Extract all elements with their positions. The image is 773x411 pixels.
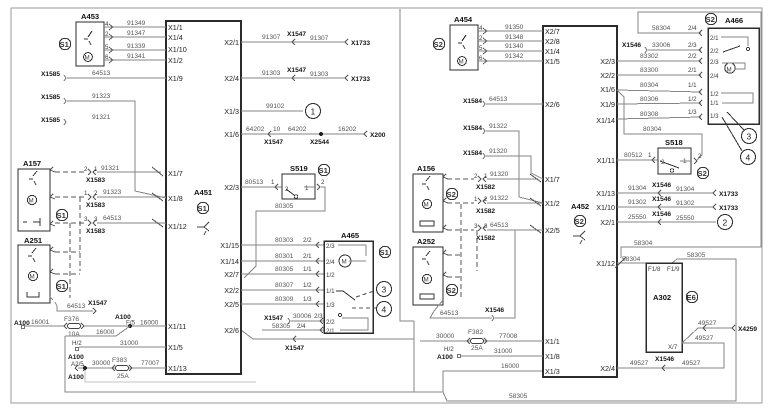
svg-text:58304: 58304 [652, 25, 671, 32]
svg-text:31000: 31000 [120, 340, 139, 347]
svg-text:S1: S1 [60, 40, 70, 49]
svg-text:2: 2 [479, 35, 483, 42]
svg-text:X2/5: X2/5 [224, 300, 239, 309]
svg-text:2/1: 2/1 [303, 253, 312, 260]
svg-text:X2/1: X2/1 [600, 218, 615, 227]
svg-text:A453: A453 [81, 12, 99, 21]
control unit A451 [166, 21, 241, 374]
svg-text:A452: A452 [571, 202, 589, 211]
dashed wire A156 to X1/7 (91320) [443, 171, 541, 191]
S1 symbol in A451 [197, 202, 208, 213]
wire 58304 labels [634, 25, 702, 247]
svg-text:91321: 91321 [92, 114, 111, 121]
svg-text:1: 1 [271, 179, 275, 186]
svg-text:X1547: X1547 [287, 67, 306, 74]
motor unit A454 [450, 15, 478, 70]
svg-text:X2/8: X2/8 [545, 37, 560, 46]
dashed bus verticals right [460, 204, 462, 298]
svg-text:X1/1: X1/1 [168, 23, 183, 32]
dashed wire A157 to X1/8 (91323) [50, 189, 166, 209]
svg-text:X1733: X1733 [719, 205, 738, 212]
wire 80307 X2/2 to A465 1/1 [241, 282, 324, 293]
wire 91303 X2/4 to X1733 [241, 67, 370, 83]
wire 30006 X1547 to A465 2/2 [264, 313, 324, 324]
wire 80305 S519 to X2/7 junction [244, 179, 325, 278]
svg-text:S1: S1 [57, 282, 67, 291]
svg-text:X1/15: X1/15 [220, 241, 239, 250]
svg-text:X1585: X1585 [41, 71, 60, 78]
wire 49527 X/7 to X4259 [682, 320, 757, 343]
svg-text:6: 6 [479, 55, 483, 62]
svg-text:91323: 91323 [92, 93, 111, 100]
svg-text:58304: 58304 [622, 256, 641, 263]
svg-text:91349: 91349 [127, 20, 146, 27]
svg-text:M: M [727, 67, 732, 74]
S1 symbol in A157 group [56, 209, 67, 220]
wire 80304 X1/6 to A466 1/2 [617, 82, 702, 95]
svg-text:S2: S2 [575, 217, 584, 226]
svg-text:S1: S1 [319, 166, 329, 175]
svg-text:2/2: 2/2 [710, 48, 719, 55]
svg-text:H/2: H/2 [72, 340, 82, 347]
svg-text:1: 1 [474, 196, 478, 203]
wire 33006 X1546 to A466 2/1 [622, 42, 702, 53]
svg-text:25A: 25A [117, 373, 129, 380]
svg-text:1/1: 1/1 [326, 288, 335, 295]
switch unit A157 [18, 159, 50, 231]
wire 80301 X1/14 to A465 2/4 [241, 253, 324, 264]
svg-text:16001: 16001 [31, 319, 50, 326]
svg-text:10A: 10A [68, 331, 80, 338]
svg-text:2/4: 2/4 [297, 323, 306, 330]
wire X2/6 58305 run [241, 330, 414, 339]
wire 64513 A251 bottom to X1547 [50, 297, 107, 314]
svg-text:F/5: F/5 [126, 320, 135, 327]
svg-text:X1547: X1547 [88, 300, 107, 307]
wire 58305 to A465 2/1 [262, 323, 324, 333]
svg-text:X2/5: X2/5 [545, 226, 560, 235]
svg-text:80309: 80309 [275, 296, 294, 303]
svg-text:58305: 58305 [687, 252, 706, 259]
svg-text:1/3: 1/3 [688, 109, 697, 116]
svg-text:X1584: X1584 [463, 125, 482, 132]
A451 right pin labels [220, 38, 239, 335]
wire 30000 fuse F382 77008 to X1/1 [420, 333, 543, 341]
svg-text:80513: 80513 [245, 179, 264, 186]
wire 91304 X1/13 to X1733 [617, 182, 738, 198]
svg-text:91341: 91341 [127, 53, 146, 60]
svg-text:91322: 91322 [490, 195, 509, 202]
svg-text:64513: 64513 [490, 222, 509, 229]
svg-text:F1/9: F1/9 [667, 266, 680, 273]
switch unit A251 [18, 236, 50, 303]
svg-text:64513: 64513 [489, 96, 508, 103]
connector X1585 wire 64513 to X1/9 [41, 70, 166, 81]
svg-text:2: 2 [321, 179, 325, 186]
svg-text:2: 2 [723, 218, 728, 228]
svg-text:91307: 91307 [310, 35, 329, 42]
svg-text:91320: 91320 [489, 148, 508, 155]
svg-text:1: 1 [305, 185, 309, 192]
svg-text:X1582: X1582 [476, 235, 495, 242]
svg-text:X1/13: X1/13 [596, 189, 615, 198]
svg-text:1/2: 1/2 [303, 282, 312, 289]
svg-text:2/3: 2/3 [710, 59, 719, 66]
svg-text:4: 4 [479, 25, 483, 32]
svg-text:X/7: X/7 [668, 344, 678, 351]
svg-text:X1/7: X1/7 [168, 169, 183, 178]
svg-text:49527: 49527 [630, 360, 649, 367]
wire 80304 X1/6 branch to S518 [617, 90, 702, 160]
svg-text:1/3: 1/3 [710, 113, 719, 120]
wire 58305 right riser [443, 259, 736, 401]
connector X1584 wire 91320 [463, 148, 543, 179]
svg-text:64513: 64513 [67, 303, 86, 310]
fuse F382 25A [467, 329, 518, 352]
svg-text:1/3: 1/3 [326, 302, 335, 309]
svg-text:2/4: 2/4 [688, 25, 697, 32]
wire 58304 route X1/12 to A466 2/4 [621, 12, 761, 258]
svg-text:2/2: 2/2 [326, 319, 335, 326]
svg-text:91350: 91350 [505, 24, 524, 31]
svg-text:X2/3: X2/3 [600, 57, 615, 66]
svg-text:X2544: X2544 [310, 139, 329, 146]
wire 91340 A454:5 to X1/4 [478, 43, 543, 54]
svg-text:M: M [85, 55, 90, 62]
svg-text:83300: 83300 [640, 67, 659, 74]
connector X1585 wire 91321 [41, 114, 111, 125]
svg-text:X1/13: X1/13 [168, 364, 187, 373]
svg-text:1/2: 1/2 [688, 96, 697, 103]
svg-text:X2/6: X2/6 [224, 326, 239, 335]
dashed wire A156 to X1/2 (91322) [443, 195, 543, 215]
svg-text:1/2: 1/2 [326, 272, 335, 279]
svg-text:X1/1: X1/1 [545, 337, 560, 346]
svg-text:X1585: X1585 [41, 117, 60, 124]
switch S518 [658, 138, 702, 174]
svg-text:S2: S2 [706, 15, 715, 24]
wire 91339 A453:5 to X1/10 [104, 43, 166, 53]
svg-text:1/2: 1/2 [710, 91, 719, 98]
temp symbol in A452 [573, 231, 585, 244]
svg-text:X1/8: X1/8 [545, 352, 560, 361]
svg-text:25550: 25550 [628, 214, 647, 221]
svg-text:2/2: 2/2 [303, 237, 312, 244]
svg-text:X1546: X1546 [652, 182, 671, 189]
svg-text:X1584: X1584 [463, 150, 482, 157]
svg-text:X1/6: X1/6 [600, 85, 615, 94]
S2 symbol in A156 group [446, 188, 457, 199]
svg-text:2: 2 [105, 31, 109, 38]
terminal A2/5 A100 wire 30000 fuse F383 77007 to X1/13 [68, 360, 166, 381]
svg-text:M: M [29, 198, 34, 205]
dashed stubs A251 [50, 247, 80, 252]
svg-text:99102: 99102 [266, 103, 285, 110]
svg-text:A100: A100 [437, 354, 453, 361]
wire 64202 X1/6 to X200 [241, 126, 386, 146]
svg-text:A156: A156 [417, 164, 435, 173]
svg-text:X1/6: X1/6 [224, 130, 239, 139]
dashed stubs A252 [443, 250, 461, 255]
svg-text:80301: 80301 [275, 253, 294, 260]
svg-text:2/1: 2/1 [326, 328, 335, 335]
svg-text:A465: A465 [341, 231, 360, 240]
connector X1585 wire 91323 [41, 93, 166, 198]
wire 80303 X1/15 to A465 2/3 [241, 237, 324, 248]
svg-text:A454: A454 [454, 15, 473, 24]
svg-text:1: 1 [648, 152, 652, 159]
svg-text:X2/2: X2/2 [600, 71, 615, 80]
svg-text:91320: 91320 [490, 171, 509, 178]
S2 symbol left of A454 [433, 38, 444, 49]
svg-text:1/1: 1/1 [688, 82, 697, 89]
svg-text:X1547: X1547 [264, 139, 283, 146]
svg-text:91307: 91307 [262, 34, 281, 41]
svg-text:77007: 77007 [141, 360, 160, 367]
svg-text:3: 3 [747, 132, 752, 142]
svg-text:X2/2: X2/2 [224, 286, 239, 295]
fuse F376 10A [64, 316, 84, 338]
svg-text:31000: 31000 [494, 348, 513, 355]
svg-text:A466: A466 [725, 16, 743, 25]
svg-text:80304: 80304 [643, 126, 662, 133]
svg-text:X200: X200 [370, 132, 386, 139]
wire 83302 X2/3 to A466 [617, 53, 702, 64]
svg-text:F1/8: F1/8 [648, 266, 661, 273]
svg-text:X1584: X1584 [463, 98, 482, 105]
svg-text:5: 5 [105, 44, 109, 51]
terminal A100 16001 fuse F376 16000 to X1/11 [14, 319, 64, 329]
svg-text:80512: 80512 [624, 152, 643, 159]
svg-text:X1/2: X1/2 [545, 199, 560, 208]
circuit 4 circle left [352, 302, 392, 317]
svg-text:X1/9: X1/9 [600, 100, 615, 109]
wire 80306 X1/9 to A466 1/1 [617, 96, 702, 106]
svg-text:S518: S518 [665, 138, 683, 147]
svg-text:X1547: X1547 [287, 31, 306, 38]
svg-text:X1583: X1583 [86, 228, 105, 235]
svg-text:X1546: X1546 [485, 307, 504, 314]
svg-text:1: 1 [683, 158, 687, 165]
svg-text:M: M [424, 202, 429, 209]
svg-text:X1546: X1546 [652, 196, 671, 203]
svg-text:S2: S2 [698, 169, 707, 178]
svg-text:10: 10 [273, 126, 281, 133]
svg-text:A252: A252 [417, 237, 435, 246]
A452 right pin labels [596, 57, 615, 373]
svg-text:49527: 49527 [698, 320, 717, 327]
wire 58304 X1/12 to A302 F1/8 [615, 256, 646, 268]
svg-text:X1583: X1583 [86, 202, 105, 209]
fuse F383 25A [112, 357, 160, 380]
switch unit A156 [413, 164, 443, 232]
svg-text:91304: 91304 [676, 186, 695, 193]
svg-text:80308: 80308 [640, 111, 659, 118]
svg-text:X2/4: X2/4 [600, 364, 615, 373]
motor unit A453 [76, 12, 104, 66]
svg-text:64202: 64202 [246, 126, 265, 133]
wire 91348 A454:2 to X2/8 [478, 34, 543, 44]
dashed wire A157 to X1/7 (91321) [50, 165, 163, 184]
svg-text:77008: 77008 [499, 333, 518, 340]
svg-text:33006: 33006 [652, 42, 671, 49]
wire 80308 X1/14 to A466 1/3 [617, 109, 702, 120]
svg-text:X1733: X1733 [351, 76, 370, 83]
svg-text:80306: 80306 [640, 96, 659, 103]
svg-text:X1582: X1582 [476, 184, 495, 191]
wire stub y382 [85, 368, 256, 382]
wire 16000 right riser [443, 371, 543, 392]
wire 83300 X2/2 to A466 [617, 67, 702, 78]
svg-text:X1/2: X1/2 [168, 56, 183, 65]
motor unit A465 [324, 231, 373, 335]
svg-text:A2/5: A2/5 [71, 361, 84, 368]
S1 symbol in A251 group [56, 280, 67, 291]
svg-text:91321: 91321 [101, 165, 120, 172]
svg-text:2: 2 [474, 173, 478, 180]
svg-text:X1583: X1583 [86, 177, 105, 184]
left system boundary box [400, 9, 414, 321]
svg-text:5: 5 [479, 45, 483, 52]
svg-text:30000: 30000 [92, 360, 111, 367]
svg-text:X4259: X4259 [738, 326, 757, 333]
wire 80513 X2/3 to S519 [241, 179, 282, 190]
svg-text:X1546: X1546 [652, 211, 671, 218]
svg-text:M: M [342, 259, 347, 266]
wire 80512 X1/11 to S518 [617, 152, 658, 163]
svg-text:X1733: X1733 [351, 40, 370, 47]
svg-text:16000: 16000 [501, 363, 520, 370]
svg-text:X1/3: X1/3 [545, 367, 560, 376]
svg-text:X1/4: X1/4 [168, 33, 183, 42]
svg-text:X1546: X1546 [655, 356, 674, 363]
svg-text:1/1: 1/1 [303, 266, 312, 273]
svg-text:4: 4 [382, 305, 387, 315]
svg-text:F376: F376 [64, 316, 79, 323]
svg-text:64202: 64202 [288, 126, 307, 133]
svg-text:6: 6 [105, 54, 109, 61]
wire 99102 X1/3 to circuit 1 [241, 103, 321, 119]
svg-text:X1/10: X1/10 [168, 45, 187, 54]
X1547 label on X2/6 run [285, 336, 304, 352]
wire 58305 bottom run [65, 336, 443, 392]
svg-text:H/2: H/2 [444, 346, 454, 353]
svg-text:91342: 91342 [505, 53, 524, 60]
S1 symbol at A465 [379, 246, 390, 257]
svg-text:80305: 80305 [275, 203, 294, 210]
svg-text:A251: A251 [24, 236, 43, 245]
wire 91302 X1/10 to X1733 [617, 196, 738, 212]
svg-text:M: M [30, 274, 35, 281]
wire 64513 A252 bottom to X1546 riser [430, 230, 515, 321]
svg-text:X1/8: X1/8 [168, 194, 183, 203]
circuit 3 circle left [356, 282, 392, 298]
svg-text:A100: A100 [68, 354, 84, 361]
svg-text:80305: 80305 [275, 266, 294, 273]
wire 91347 A453:2 to X1/4 [104, 30, 166, 40]
svg-text:64513: 64513 [92, 70, 111, 77]
wire 91307 X2/1 to X1733 [241, 31, 370, 47]
wire loop from A100 junction [65, 326, 130, 336]
svg-text:X1/10: X1/10 [596, 203, 615, 212]
svg-text:X2/3: X2/3 [224, 183, 239, 192]
svg-text:A100: A100 [68, 374, 84, 381]
wire 91349 A453:4 to X1/1 [104, 20, 166, 30]
S1 symbol left of A453 [59, 38, 70, 49]
A452 left pin labels [545, 27, 560, 376]
svg-text:3: 3 [474, 223, 478, 230]
svg-text:91339: 91339 [127, 43, 146, 50]
wire 91342 A454:6 to X1/5 [478, 53, 543, 64]
svg-text:S1: S1 [380, 248, 390, 257]
svg-text:2/1: 2/1 [710, 35, 719, 42]
svg-text:S1: S1 [198, 204, 208, 213]
dashed wire A157 to X1/12 (64513) [50, 215, 166, 235]
svg-text:X1/9: X1/9 [168, 74, 183, 83]
E6 symbol at A302 [686, 291, 697, 302]
connector X1584 wire 91322 [463, 123, 543, 203]
svg-text:91348: 91348 [505, 34, 524, 41]
svg-text:X1546: X1546 [622, 42, 641, 49]
S2 symbol in A452 [574, 215, 585, 226]
svg-text:F382: F382 [468, 329, 483, 336]
svg-text:30006: 30006 [293, 313, 312, 320]
svg-text:X2/1: X2/1 [224, 38, 239, 47]
svg-text:2/3: 2/3 [688, 42, 697, 49]
svg-text:25A: 25A [471, 345, 483, 352]
svg-text:X1/14: X1/14 [596, 116, 615, 125]
control unit A452 [543, 26, 617, 377]
svg-text:X2/6: X2/6 [545, 100, 560, 109]
svg-text:80303: 80303 [275, 237, 294, 244]
control unit A302 [646, 263, 682, 352]
svg-text:S2: S2 [434, 40, 443, 49]
wire 16000 to X1/11 [84, 314, 166, 336]
svg-text:16202: 16202 [338, 126, 357, 133]
terminal A100 H/2 wire 31000 to X1/8 [437, 346, 543, 361]
wire 80309 X2/5 to A465 1/3 [241, 296, 324, 307]
A451 left pin labels [168, 23, 187, 373]
dashed wire A156 to X2/5 (64513) [443, 222, 543, 242]
svg-text:X1/3: X1/3 [224, 107, 239, 116]
wire 25550 X2/1 to circuit 2 [617, 211, 733, 230]
svg-text:1/1: 1/1 [710, 100, 719, 107]
svg-text:58304: 58304 [634, 240, 653, 247]
wire riser x414 [414, 321, 443, 392]
svg-text:91303: 91303 [262, 70, 281, 77]
svg-text:91302: 91302 [676, 200, 695, 207]
svg-text:30000: 30000 [436, 333, 455, 340]
wire 91341 A453:6 to X1/2 [104, 53, 166, 63]
dashed bus verticals left [69, 223, 71, 298]
svg-text:S2: S2 [447, 286, 456, 295]
svg-text:X2/7: X2/7 [224, 270, 239, 279]
svg-text:3: 3 [382, 285, 387, 295]
svg-text:2/2: 2/2 [688, 53, 697, 60]
svg-text:X1547: X1547 [264, 315, 283, 322]
S2 symbol in A252 group [446, 284, 457, 295]
connector X1584 wire 64513 to X2/6 [463, 96, 543, 107]
svg-text:91323: 91323 [103, 189, 122, 196]
svg-text:49527: 49527 [695, 335, 714, 342]
svg-text:E6: E6 [687, 293, 696, 302]
svg-text:58305: 58305 [272, 323, 291, 330]
svg-text:64513: 64513 [103, 215, 122, 222]
svg-text:1: 1 [84, 190, 88, 197]
svg-text:83302: 83302 [640, 53, 659, 60]
svg-text:X1582: X1582 [476, 208, 495, 215]
circuit 4 circle right [741, 150, 756, 165]
